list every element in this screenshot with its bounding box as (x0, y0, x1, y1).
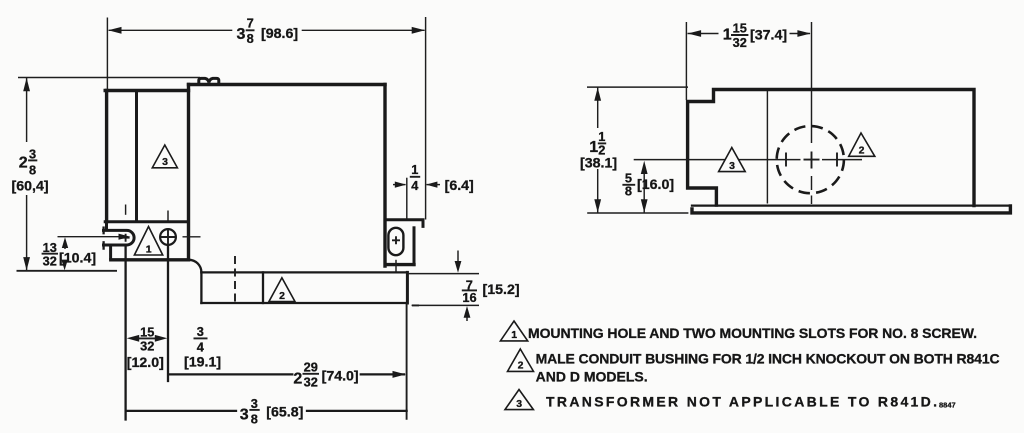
svg-text:8: 8 (29, 162, 36, 177)
lower body bottom edge (201, 302, 407, 304)
svg-text:3: 3 (251, 396, 258, 411)
dimension 5/8 [16.0] (641, 161, 648, 174)
svg-text:2: 2 (279, 290, 285, 302)
right edge extension down to dimension lines (406, 303, 408, 420)
right flange inner edge (413, 228, 416, 265)
lower body left edge (200, 272, 202, 303)
svg-text:[98.6]: [98.6] (261, 26, 298, 42)
slot centerline tick above flange (125, 205, 127, 215)
svg-text:3: 3 (29, 146, 36, 161)
note triangle 1 (500, 321, 527, 341)
dashed line in lower body (234, 256, 236, 302)
bottom reference line (587, 212, 688, 214)
dimension 1/4 [6.4] (406, 178, 408, 219)
svg-text:3: 3 (197, 324, 204, 339)
svg-text:3: 3 (237, 26, 246, 43)
mounting slot left (hook) (104, 222, 135, 258)
svg-text:15: 15 (733, 20, 747, 35)
mounting hole symbol (160, 229, 176, 245)
svg-text:[60,4]: [60,4] (12, 179, 49, 195)
svg-text:8: 8 (247, 31, 254, 46)
svg-text:MALE CONDUIT BUSHING FOR 1/2 I: MALE CONDUIT BUSHING FOR 1/2 INCH KNOCKO… (536, 351, 1000, 367)
svg-text:32: 32 (140, 339, 154, 354)
NOTES (500, 321, 999, 410)
hole centerline tick above flange (167, 211, 169, 221)
horizontal centerline (634, 159, 862, 161)
triangle 2 front view (269, 278, 295, 302)
svg-text:7: 7 (247, 15, 254, 30)
svg-text:1: 1 (411, 162, 418, 177)
conduit tab bump on top (199, 78, 219, 84)
svg-text:3: 3 (240, 407, 249, 424)
top reference line (587, 86, 688, 88)
svg-text:8: 8 (251, 411, 258, 426)
svg-text:8847: 8847 (939, 401, 956, 410)
dimension 3 7/8 [98.6] overall width (106, 18, 108, 91)
right slot centerline tick (395, 260, 397, 272)
plus mark in slot (122, 234, 130, 242)
svg-text:2: 2 (518, 360, 524, 372)
svg-text:3: 3 (729, 160, 735, 172)
slot mouth caps (102, 228, 104, 234)
svg-text:1: 1 (511, 329, 517, 341)
knockout vertical centerline (811, 22, 813, 204)
svg-text:32: 32 (733, 35, 747, 50)
svg-text:[19.1]: [19.1] (184, 354, 221, 370)
dimension 7/16 [15.2] (409, 273, 479, 275)
triangle 3 front view (152, 145, 177, 168)
svg-text:15: 15 (140, 324, 154, 339)
dimension 15/32 [12.0] (127, 335, 140, 342)
svg-text:[6.4]: [6.4] (445, 178, 474, 194)
svg-text:[10.4]: [10.4] (59, 251, 96, 267)
svg-text:29: 29 (304, 360, 318, 375)
dimension 1 15/32 [37.4] (685, 22, 687, 100)
svg-text:4: 4 (197, 339, 205, 354)
FRONT-VIEW (12, 15, 520, 426)
lower body right edge (406, 272, 409, 303)
flange bottom edge (111, 258, 189, 261)
side view body outline (688, 90, 974, 206)
quadrant tick right (836, 153, 838, 167)
svg-text:32: 32 (43, 253, 57, 268)
knockout center cross (804, 152, 820, 169)
dimension 3 3/8 [65.8] (126, 410, 236, 412)
slot centerline reference with arrow (58, 236, 125, 238)
body right edge (383, 85, 386, 267)
transformer boundary line (766, 91, 768, 204)
svg-text:[15.2]: [15.2] (483, 282, 520, 298)
svg-text:AND D MODELS.: AND D MODELS. (536, 368, 648, 384)
quadrant tick left (785, 153, 787, 167)
inner vertical line (135, 91, 138, 222)
svg-text:MOUNTING HOLE AND TWO MOUNTING: MOUNTING HOLE AND TWO MOUNTING SLOTS FOR… (528, 325, 977, 341)
svg-text:1: 1 (146, 243, 152, 255)
right mounting slot (388, 228, 403, 255)
triangle 3 side view (719, 148, 746, 172)
body left edge (105, 91, 108, 222)
SIDE-VIEW (580, 20, 1010, 213)
svg-text:[37.4]: [37.4] (750, 28, 787, 44)
knockout dashed circle (777, 126, 844, 193)
hole centerline tick right (183, 236, 201, 238)
svg-text:2: 2 (293, 370, 302, 387)
svg-text:1: 1 (723, 27, 732, 44)
triangle 2 side view (849, 133, 875, 156)
dimension 2 29/32 [74.0] (169, 373, 292, 375)
reference line top of bump (18, 77, 200, 79)
base plate (692, 204, 1009, 206)
heavy inner vertical (transformer boundary) (187, 85, 190, 260)
svg-text:[12.0]: [12.0] (127, 355, 164, 371)
svg-text:16: 16 (462, 290, 476, 305)
svg-text:[74.0]: [74.0] (322, 368, 359, 384)
hole centerline down to dimensions (167, 247, 169, 382)
body top edge right portion (189, 83, 386, 86)
right flange bottom ledge (386, 263, 414, 266)
inner vertical line lower body (262, 272, 264, 303)
dimension 2 3/8 [60,4] overall height (26, 78, 28, 143)
svg-text:4: 4 (411, 178, 419, 193)
triangle 1 front view (134, 227, 162, 256)
svg-text:3: 3 (516, 398, 522, 410)
lower body top edge (201, 271, 407, 273)
right flange top edge with lip (385, 220, 423, 227)
dimension 13/32 [10.4] (62, 237, 68, 248)
slot centerline down to dimensions (124, 245, 126, 420)
svg-text:2: 2 (859, 145, 865, 157)
note triangle 2 (508, 349, 534, 371)
note triangle 3 (505, 390, 533, 410)
fillet step down to lower body (189, 260, 202, 273)
svg-text:[65.8]: [65.8] (266, 404, 303, 420)
svg-text:1: 1 (589, 139, 598, 156)
body top edge left portion (105, 89, 188, 92)
svg-text:[16.0]: [16.0] (637, 177, 674, 193)
svg-text:3: 3 (162, 156, 168, 168)
baseline reference left (17, 270, 118, 272)
svg-text:32: 32 (304, 375, 318, 390)
dimension 1 1/2 [38.1] height (597, 87, 599, 128)
svg-text:8: 8 (625, 183, 632, 198)
svg-text:[38.1]: [38.1] (580, 156, 617, 172)
flange top edge (105, 220, 188, 223)
svg-text:2: 2 (19, 154, 28, 171)
plus mark in right slot (392, 236, 400, 244)
